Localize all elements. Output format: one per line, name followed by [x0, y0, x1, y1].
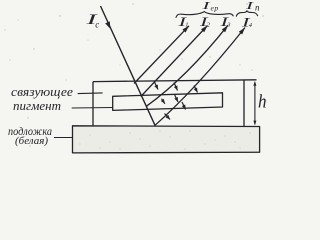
scatter arrow 2	[174, 83, 178, 91]
svg-text:1: 1	[185, 21, 188, 28]
scatter arrow 3	[194, 86, 198, 93]
scatter arrow 6	[182, 102, 186, 110]
scatter arrow 4	[161, 99, 165, 104]
svg-text:ер: ер	[211, 3, 219, 12]
scan noise speckles	[4, 3, 267, 153]
pigment rectangle	[113, 93, 223, 111]
reflected ray I_1	[134, 26, 189, 84]
binder layer box left edge	[92, 82, 94, 126]
scatter arrow 1	[154, 82, 158, 90]
incident ray arrowhead	[105, 21, 110, 28]
label I_2	[198, 14, 211, 29]
reflected ray I_2	[141, 26, 208, 97]
substrate texture dots	[79, 130, 251, 150]
dimension arrow up	[253, 81, 256, 86]
label I_er	[201, 0, 219, 12]
overbrace I_n over I_4	[236, 11, 257, 16]
scatter arrow 5	[174, 95, 178, 103]
dimension line h	[254, 83, 256, 125]
label I_3	[219, 14, 232, 29]
svg-text:c: c	[95, 20, 99, 30]
incident ray I_c line	[101, 6, 156, 125]
svg-text:(белая): (белая)	[15, 136, 49, 147]
svg-text:п: п	[255, 2, 260, 12]
paper background	[0, 0, 272, 160]
binder layer box right edge	[243, 80, 245, 126]
reflected ray I_4	[155, 28, 245, 126]
svg-text:h: h	[258, 92, 267, 113]
reflected ray I_3	[146, 25, 228, 106]
leader dash for substrate label	[54, 137, 73, 139]
binder layer box top edge (extends right to h extension)	[93, 80, 257, 82]
label I_1	[177, 14, 189, 29]
svg-text:связующее: связующее	[11, 85, 73, 99]
leader dash for pigment label	[72, 107, 113, 110]
svg-text:3: 3	[226, 22, 231, 29]
leader dash for binder label	[78, 92, 103, 95]
label I_4	[240, 14, 253, 29]
scatter arrow 7	[165, 114, 171, 120]
overbrace I_er over I_1..I_3	[176, 12, 233, 18]
svg-text:пигмент: пигмент	[13, 98, 61, 113]
substrate box (podlozhka)	[73, 126, 260, 153]
dimension arrow down	[253, 121, 256, 126]
label I_n	[244, 0, 260, 12]
